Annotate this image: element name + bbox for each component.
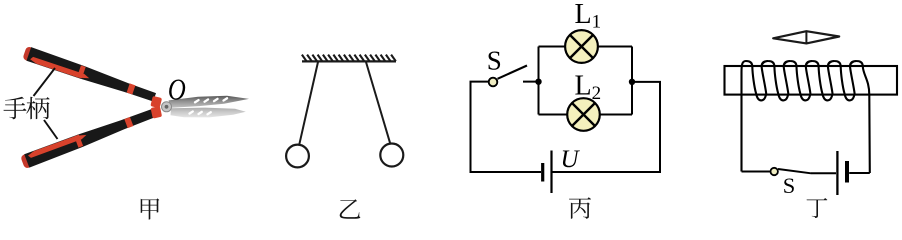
svg-text:S: S — [487, 46, 502, 76]
svg-text:S: S — [783, 173, 796, 198]
svg-text:U: U — [561, 146, 581, 173]
svg-text:O: O — [168, 73, 186, 107]
